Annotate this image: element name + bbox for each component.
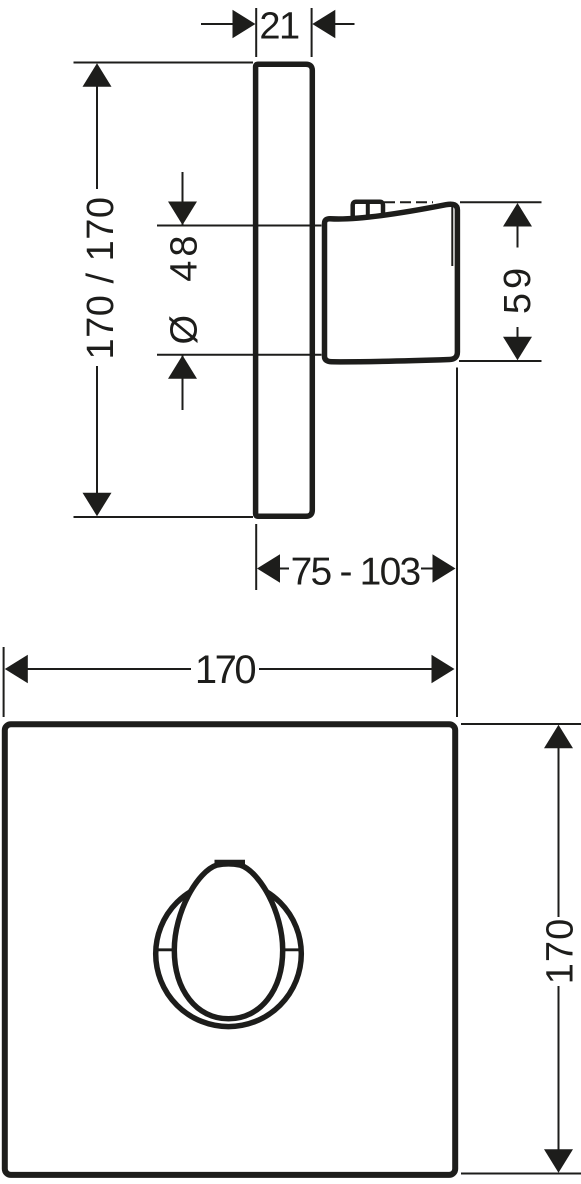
dim 170 top left extension line [3,647,5,717]
dim 170 top arrow right [432,655,455,683]
dim 21 leader line left [201,23,234,25]
front plate [5,724,455,1175]
svg-text:59: 59 [497,264,539,314]
dim 75-103 / 170 shared right extension line [456,368,458,718]
dim 170 right bottom tick [461,1173,581,1175]
dim 75-103 left extension line [255,524,257,590]
dim 48 lower tick [157,354,322,356]
dim 170 right top tick [461,723,581,725]
knob base ring (front view) [156,881,302,1027]
dim 170 right line upper [558,746,560,917]
dim 75-103 leader left [279,568,289,570]
handle face dashed line [384,201,433,203]
handle button side view [353,202,383,219]
knob split tick right [283,948,302,951]
svg-text:170 / 170: 170 / 170 [80,197,122,360]
dim 170 top line right [259,668,433,670]
dim 170 right arrow down [544,1149,573,1173]
dim 48 line upper [182,172,184,225]
svg-text:170: 170 [540,918,581,984]
dim 59 line upper [517,225,519,248]
dim 21 extension line right [311,8,313,57]
svg-text:21: 21 [259,6,299,48]
dim 170 top arrow left [5,655,28,683]
dim 170 right line lower [558,986,560,1150]
dim 48 upper tick [157,225,322,227]
dim 48 line lower [182,355,184,410]
dim 21 extension line left [255,8,257,57]
knob split tick left [156,948,175,951]
dim 170/170 top tick [74,62,254,64]
dim 21 arrow left [233,10,256,38]
dim 170/170 arrow down [83,493,112,517]
dim 59 top tick [460,201,542,203]
dim 59 arrow up [503,203,532,227]
dim 59 arrow down [503,337,532,361]
svg-text:Ø 48: Ø 48 [164,232,206,345]
dim 48 arrow up [168,355,197,379]
knob grip egg (front view) [174,864,282,1019]
dim 21 arrow right [312,10,335,38]
dim 170 top line left [27,668,191,670]
escutcheon plate side view [256,64,313,516]
handle side view body [325,204,458,362]
dim 75-103 arrow right [433,554,456,582]
dim 59 line lower [517,327,519,337]
dim 21 leader line right [334,23,355,25]
svg-text:170: 170 [195,648,255,692]
handle button divider [366,201,370,218]
dim 75-103 leader right [421,568,433,570]
dim 170/170 arrow up [83,63,112,87]
dim 48 arrow down [168,202,197,226]
svg-text:75 - 103: 75 - 103 [291,551,420,594]
dim 170 right arrow up [544,725,573,749]
handle face edge line [451,205,453,266]
dim 59 bottom tick [459,360,542,362]
dim 170/170 bottom tick [74,516,254,518]
dim 170/170 line upper [96,85,98,189]
dim 75-103 arrow left [257,554,280,582]
dim 170/170 line lower [96,366,98,495]
knob button cap [215,860,246,865]
